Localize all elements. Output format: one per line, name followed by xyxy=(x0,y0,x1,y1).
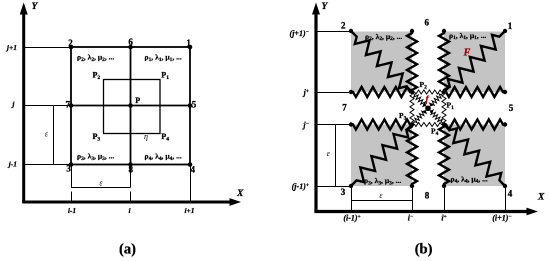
a: mid horizontal line xyxy=(71,105,190,107)
svg-text:P2: P2 xyxy=(420,80,428,91)
svg-text:j−: j− xyxy=(301,121,309,130)
svg-text:P3: P3 xyxy=(399,111,407,122)
b: wire row j+ xyxy=(316,92,351,94)
b: fine spring bottom edge xyxy=(412,123,444,127)
svg-text:6: 6 xyxy=(425,18,430,28)
svg-text:2: 2 xyxy=(68,38,73,48)
svg-text:(j+1)−: (j+1)− xyxy=(290,29,309,38)
svg-text:j-1: j-1 xyxy=(8,160,17,169)
b: wire column i+ xyxy=(444,186,446,211)
b: gray quadrant bottom-left xyxy=(351,125,412,187)
svg-text:6: 6 xyxy=(128,37,133,47)
a: node 3 dot xyxy=(69,162,74,167)
svg-text:3: 3 xyxy=(66,164,71,174)
b: node 7a dot xyxy=(349,90,353,94)
a: wire i column lower xyxy=(130,192,132,202)
svg-text:(i-1)+: (i-1)+ xyxy=(343,214,360,223)
svg-text:7: 7 xyxy=(342,103,347,113)
b: gray quadrant top-right xyxy=(444,32,505,93)
svg-text:j+1: j+1 xyxy=(6,43,17,52)
b: Y axis xyxy=(314,12,317,212)
a: node 8 dot xyxy=(128,162,133,167)
svg-text:Y: Y xyxy=(322,2,329,12)
b: spring diagonal BL (node 3 to P3 corner) xyxy=(351,125,412,187)
b: node P4c dot xyxy=(442,122,446,126)
b: wire row (j+1)- xyxy=(316,31,351,33)
svg-text:X: X xyxy=(236,189,244,199)
b: epsilon bracket left xyxy=(335,125,337,187)
svg-text:ρ2, λ2, μ2, ...: ρ2, λ2, μ2, ... xyxy=(77,53,114,63)
svg-text:η: η xyxy=(144,132,148,141)
svg-text:1: 1 xyxy=(186,38,191,48)
svg-text:X: X xyxy=(537,193,545,203)
a: node 6 dot xyxy=(128,45,133,50)
svg-text:P3: P3 xyxy=(93,132,101,143)
b: spring horizontal BL xyxy=(351,120,412,130)
svg-text:ε: ε xyxy=(99,179,103,188)
a: wire i column upper xyxy=(130,165,132,188)
b: node 2 dot xyxy=(349,29,353,33)
svg-text:P: P xyxy=(135,96,140,105)
svg-text:ε: ε xyxy=(45,130,49,139)
a: epsilon bracket bottom xyxy=(71,187,131,189)
svg-text:P4: P4 xyxy=(161,132,169,143)
b: node 8a dot xyxy=(410,184,414,188)
b: node 6a dot xyxy=(410,29,414,33)
b: spring vertical TL xyxy=(407,31,417,92)
b: spring vertical TR xyxy=(439,31,449,92)
a: mid vertical line xyxy=(130,47,132,165)
svg-text:8: 8 xyxy=(129,165,134,175)
b: wire column i- xyxy=(412,186,414,211)
b: X axis xyxy=(314,210,528,213)
svg-text:F: F xyxy=(463,48,471,59)
svg-text:Y: Y xyxy=(32,2,39,12)
svg-text:8: 8 xyxy=(425,191,430,201)
svg-text:ρ3, λ3, μ3, ...: ρ3, λ3, μ3, ... xyxy=(77,152,114,162)
b: spring horizontal TL xyxy=(351,87,412,97)
b: spring diagonal TL (node 2 to P2 corner) xyxy=(351,31,412,92)
svg-text:ε: ε xyxy=(327,149,331,158)
a: node 5 dot xyxy=(188,103,193,108)
b: wire column (i-1)+ xyxy=(351,186,353,211)
b: node 7b dot xyxy=(349,122,353,126)
b: wire column (i+1)- xyxy=(505,186,507,211)
a: node 7 dot xyxy=(69,103,74,108)
a: wire j+1 row xyxy=(24,47,71,49)
b: fine spring right edge xyxy=(442,92,446,125)
b: gray quadrant top-left xyxy=(351,32,412,93)
b: fine spring diagonal from P3 corner xyxy=(412,108,428,124)
a: epsilon bracket left xyxy=(53,106,55,165)
a: wire i+1 column xyxy=(190,165,192,202)
b: node 6b dot xyxy=(442,29,446,33)
a: node 2 dot xyxy=(69,45,74,50)
a: wire j row xyxy=(24,105,71,107)
svg-text:i: i xyxy=(128,206,131,215)
a: node 1 dot xyxy=(188,45,193,50)
b: node 8b dot xyxy=(442,184,446,188)
svg-text:1: 1 xyxy=(508,21,513,31)
svg-text:i-1: i-1 xyxy=(68,206,76,215)
svg-text:4: 4 xyxy=(191,165,196,175)
b: node 5a dot xyxy=(503,90,507,94)
b: node P2c dot xyxy=(410,90,414,94)
b: node 1 dot xyxy=(503,29,507,33)
svg-text:j+: j+ xyxy=(302,88,309,97)
b: spring horizontal BR xyxy=(444,120,505,130)
b: fine spring top edge xyxy=(412,90,444,94)
svg-text:P1: P1 xyxy=(447,101,455,112)
svg-text:P2: P2 xyxy=(93,71,101,82)
svg-text:3: 3 xyxy=(341,187,346,197)
b: fine spring diagonal from P1 corner xyxy=(428,92,444,108)
svg-text:j: j xyxy=(11,100,15,109)
b: spring vertical BL xyxy=(407,125,417,187)
b: spring diagonal TR (node 1 to P1 corner) xyxy=(444,31,505,92)
a: node 4 dot xyxy=(188,162,193,167)
a: outer cell square xyxy=(71,47,190,165)
svg-text:(j-1)+: (j-1)+ xyxy=(292,182,309,191)
a: wire i-1 column upper xyxy=(71,165,73,188)
svg-text:7: 7 xyxy=(66,100,71,110)
svg-text:i+: i+ xyxy=(441,214,446,223)
b: spring vertical BR xyxy=(439,125,449,187)
b: node 3 dot xyxy=(349,184,353,188)
b: spring diagonal BR (node 4 to P4 corner) xyxy=(444,125,505,187)
svg-text:i−: i− xyxy=(408,214,414,223)
diagram a: Y axis xyxy=(22,12,25,202)
svg-text:ρ4, λ4, μ4, ...: ρ4, λ4, μ4, ... xyxy=(145,152,182,162)
svg-text:i+1: i+1 xyxy=(184,206,194,215)
svg-text:P4: P4 xyxy=(431,127,439,138)
b: gray quadrant bottom-right xyxy=(444,125,505,187)
b: wire row (j-1)+ xyxy=(316,186,351,188)
b: fine spring diagonal from P4 corner xyxy=(428,108,444,124)
b: epsilon bracket bottom xyxy=(351,200,412,202)
a: wire j-1 row xyxy=(24,164,71,166)
svg-text:(i+1)−: (i+1)− xyxy=(492,214,511,223)
svg-text:ρ1, λ1, μ1, ...: ρ1, λ1, μ1, ... xyxy=(145,53,182,63)
b: node 4 dot xyxy=(503,184,507,188)
svg-text:(a): (a) xyxy=(119,242,136,258)
svg-text:4: 4 xyxy=(508,189,513,199)
a: inner square P1P2P3P4 xyxy=(104,80,161,134)
b: node P1c dot xyxy=(442,90,446,94)
b: node P3c dot xyxy=(410,122,414,126)
b: central node blob xyxy=(425,105,431,111)
svg-text:2: 2 xyxy=(341,21,346,31)
svg-text:(b): (b) xyxy=(415,242,433,258)
b: node 5b dot xyxy=(503,122,507,126)
a: node P dot xyxy=(128,103,133,108)
svg-text:ε: ε xyxy=(379,191,383,200)
diagram a: X axis xyxy=(22,201,231,204)
b: fine spring diagonal from P2 corner xyxy=(412,92,428,108)
b: fine spring left edge xyxy=(410,92,414,125)
svg-text:5: 5 xyxy=(509,103,514,113)
a: wire i-1 column lower xyxy=(71,192,73,202)
b: wire row j- xyxy=(316,124,351,126)
b: spring horizontal TR xyxy=(444,87,505,97)
svg-text:5: 5 xyxy=(192,100,197,110)
svg-text:P1: P1 xyxy=(161,71,169,82)
